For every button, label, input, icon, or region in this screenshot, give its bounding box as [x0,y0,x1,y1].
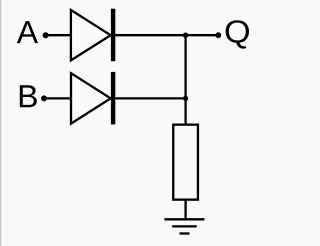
terminal dot A [43,32,49,38]
diode D2 cathode bar [111,72,115,125]
diode D1 cathode bar [111,9,115,62]
wire A input [46,34,71,36]
wire B input [44,97,71,99]
wire output bus vertical [184,35,186,124]
wire D1 to output [115,34,218,36]
resistor R1 [173,125,198,200]
node A label [17,21,38,43]
wire resistor to ground [184,200,186,220]
ground [164,219,204,233]
terminal dot Q [215,32,221,38]
wire D2 to junction [115,97,185,99]
terminal dot B [41,95,47,101]
junction node bottom [183,96,188,101]
junction node top [183,33,188,38]
diode D2 [71,73,111,123]
node Q label [226,20,249,48]
diode D1 [71,10,111,60]
node B label [20,85,37,107]
